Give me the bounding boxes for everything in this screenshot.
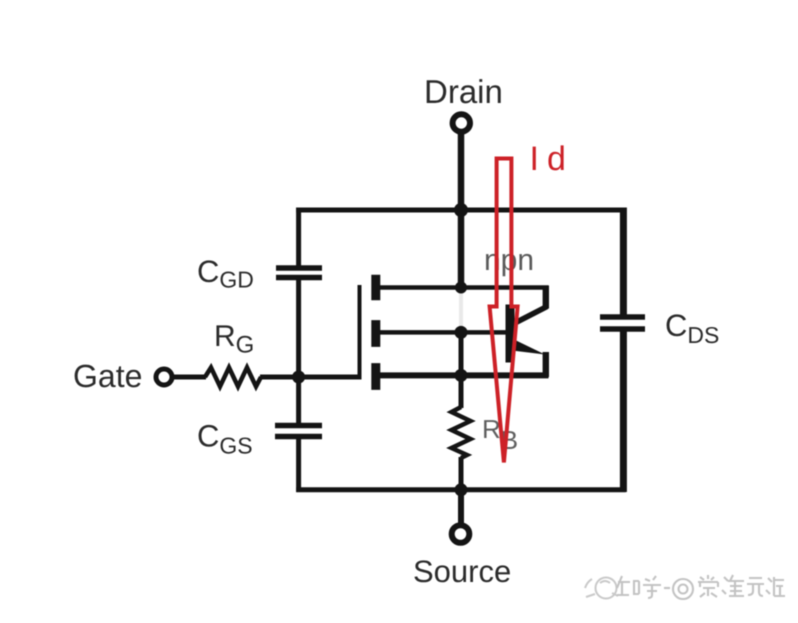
svg-text:Source: Source	[413, 554, 511, 589]
svg-text:Drain: Drain	[424, 73, 503, 110]
svg-text:Gate: Gate	[73, 358, 142, 394]
svg-text:Id: Id	[530, 140, 574, 178]
svg-text:npn: npn	[484, 244, 534, 277]
